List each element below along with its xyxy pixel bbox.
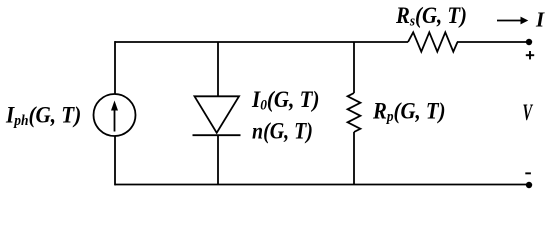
current source circle	[94, 94, 136, 136]
output current arrowhead	[521, 17, 529, 25]
current source arrow shaft	[114, 108, 116, 132]
wire Rp branch lower lead	[353, 132, 355, 185]
diode D triangle	[195, 96, 240, 133]
wire bottom horizontal	[115, 184, 529, 186]
diode cathode bar	[193, 134, 241, 136]
label - polarity (drawn)	[525, 172, 531, 174]
svg-text:Iph(G, T): Iph(G, T)	[5, 101, 81, 129]
label + polarity (drawn)	[526, 51, 534, 59]
output current arrow I shaft	[497, 20, 522, 22]
svg-text:Rp(G, T): Rp(G, T)	[372, 97, 445, 125]
wire diode branch lower lead	[217, 135, 219, 184]
svg-text:Rs(G, T): Rs(G, T)	[395, 2, 467, 30]
wire left vertical lower (current source bottom lead)	[114, 136, 116, 185]
terminal node - (bottom right dot)	[526, 182, 532, 188]
resistor Rs zigzag	[408, 32, 458, 51]
resistor Rp zigzag	[348, 93, 361, 132]
wire top-right segment after Rs	[457, 41, 529, 43]
svg-text:V: V	[523, 101, 534, 126]
wire diode branch upper lead	[217, 42, 219, 96]
wire Rp branch upper lead	[353, 42, 355, 93]
wire left vertical upper (current source top lead)	[114, 41, 116, 94]
terminal node + (top right dot)	[526, 39, 532, 45]
svg-text:I: I	[535, 8, 545, 32]
svg-text:n(G, T): n(G, T)	[252, 118, 313, 144]
current source arrowhead	[111, 101, 118, 111]
svg-text:I0(G, T): I0(G, T)	[251, 86, 319, 114]
wire top-left horizontal segment	[115, 41, 408, 43]
